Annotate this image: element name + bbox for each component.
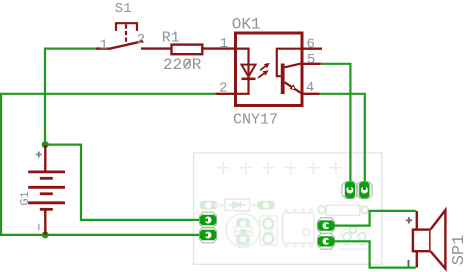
- svg-text:S1: S1: [115, 1, 132, 17]
- OK1 emission arrow b: [258, 70, 269, 78]
- svg-text:G1: G1: [18, 191, 32, 205]
- PCB module board outline: [194, 153, 383, 264]
- OK1 emission arrow a: [260, 63, 270, 71]
- svg-text:CNY17: CNY17: [233, 111, 278, 128]
- diode footprint D (faint): [200, 199, 275, 210]
- pad P2 lower-left: [200, 227, 217, 243]
- svg-text:6: 6: [307, 36, 315, 52]
- speaker - mark: [408, 260, 410, 267]
- wire: battery+ to switch pin1: [45, 49, 96, 145]
- wire: battery+ to PCB pad upper-left: [45, 145, 208, 220]
- pad P1 upper-left: [200, 212, 217, 228]
- battery - mark: [38, 224, 40, 230]
- OK1 LED cathode bar: [242, 78, 256, 81]
- OK1 phototransistor emitter: [285, 82, 302, 93]
- OK1 pin 5 stub: [302, 63, 321, 65]
- pad P5 right-middle upper: [318, 218, 335, 234]
- resistor R1: [172, 45, 236, 55]
- transistor TO-92 footprint (faint): [226, 211, 260, 247]
- svg-text:SP1: SP1: [450, 235, 468, 266]
- battery + mark: [36, 152, 42, 158]
- buzzer footprint (faint): [338, 226, 370, 249]
- OK1 LED cathode path: [236, 79, 249, 94]
- wire: battery- net (left loop to OK1 pin2 and to PCB pad lower-left): [1, 94, 215, 235]
- OK1 phototransistor base path: [277, 49, 302, 76]
- OK1 pin 2 stub: [215, 93, 235, 95]
- svg-text:OK1: OK1: [232, 16, 261, 34]
- pad P4 top-right B: [356, 182, 372, 199]
- svg-text:1: 1: [100, 37, 108, 53]
- svg-text:2: 2: [219, 81, 227, 97]
- OK1 phototransistor base bar: [281, 64, 285, 95]
- svg-text:4: 4: [306, 80, 314, 96]
- svg-text:R1: R1: [162, 30, 180, 47]
- OK1 pin 6 stub: [302, 48, 322, 50]
- wire: PCB pad P5 to speaker +: [326, 211, 416, 226]
- wire: PCB pad P6 to speaker -: [326, 241, 416, 267]
- pad P3 top-right A: [342, 182, 358, 199]
- svg-text:1: 1: [220, 36, 228, 52]
- OK1 phototransistor collector: [285, 63, 302, 67]
- OK1 pin 4 stub: [302, 93, 320, 95]
- resistor footprint (faint): [318, 205, 368, 215]
- svg-text:5: 5: [307, 52, 315, 68]
- OK1 LED anode path: [236, 49, 249, 79]
- switch S1 actuator bracket: [116, 23, 137, 43]
- IC footprint (faint): [283, 209, 314, 248]
- speaker SP1 pin line: [416, 211, 418, 268]
- svg-text:220R: 220R: [163, 56, 202, 74]
- small 2-pad footprint (faint): [260, 216, 277, 245]
- wire: OK1 pin4 to PCB pad top B: [320, 94, 365, 190]
- battery G1: [28, 145, 65, 235]
- junction battery+: [42, 141, 49, 148]
- speaker SP1 cone: [431, 210, 446, 269]
- mounting hole crosses: [217, 161, 342, 174]
- pad P6 right-middle lower: [318, 233, 335, 249]
- junction battery-: [42, 231, 49, 238]
- svg-text:2: 2: [137, 32, 145, 48]
- OK1 LED triangle: [242, 65, 256, 77]
- wire: OK1 pin5 to PCB pad top A: [321, 64, 351, 190]
- OK1 box: [236, 33, 303, 106]
- switch S1 pin stubs and lever: [96, 41, 171, 49]
- OK1 emitter arrowhead: [290, 84, 297, 91]
- speaker SP1 driver box: [413, 230, 430, 252]
- speaker + mark: [406, 217, 412, 223]
